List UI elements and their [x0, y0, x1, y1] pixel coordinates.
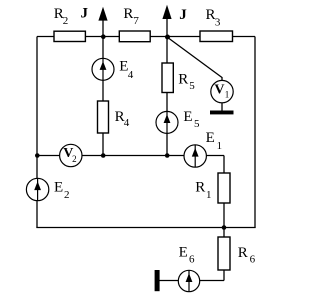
svg-text:J: J — [179, 7, 187, 23]
svg-text:7: 7 — [133, 15, 139, 27]
svg-text:E: E — [54, 179, 63, 195]
svg-text:3: 3 — [215, 17, 221, 29]
svg-text:1: 1 — [206, 189, 212, 201]
svg-text:R: R — [123, 6, 133, 22]
svg-text:5: 5 — [189, 80, 195, 92]
svg-text:2: 2 — [72, 154, 77, 164]
svg-text:4: 4 — [124, 117, 130, 129]
svg-text:R: R — [238, 245, 248, 261]
svg-text:E: E — [179, 245, 188, 261]
svg-text:6: 6 — [189, 254, 195, 266]
svg-text:R: R — [195, 180, 205, 196]
svg-text:6: 6 — [250, 254, 256, 266]
svg-text:R: R — [178, 71, 188, 87]
svg-text:1: 1 — [225, 90, 230, 100]
svg-text:1: 1 — [217, 140, 223, 152]
svg-text:J: J — [81, 6, 89, 22]
svg-text:E: E — [183, 109, 192, 125]
svg-text:V: V — [214, 83, 224, 98]
svg-text:2: 2 — [64, 189, 70, 201]
svg-text:E: E — [206, 130, 215, 146]
svg-text:5: 5 — [194, 118, 200, 130]
svg-text:2: 2 — [63, 15, 69, 27]
svg-text:4: 4 — [128, 69, 134, 81]
